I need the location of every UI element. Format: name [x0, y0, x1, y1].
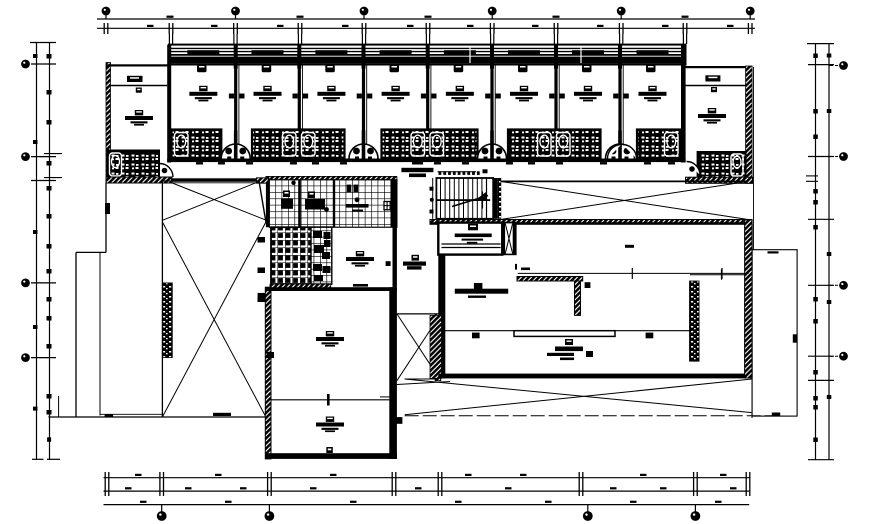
toilet block bottom hatch [270, 284, 331, 289]
right suite bathroom [698, 152, 746, 179]
service block tile floor [269, 180, 397, 227]
right dimension top tick [807, 43, 834, 45]
service room A fixtures [281, 181, 296, 209]
terrace west wall upper [105, 183, 107, 252]
balcony band outer rect [169, 45, 686, 65]
south void east line [751, 378, 753, 418]
top grid bubbles with stems [102, 7, 111, 19]
left suite hatched west wall [106, 63, 111, 184]
right grid bubbles with stems [829, 61, 848, 70]
manager room desk [455, 224, 492, 244]
tall room west hatched wall [265, 287, 271, 459]
staircase lower flight steps [440, 201, 442, 219]
right suite upper desk [705, 75, 720, 92]
left suite bed symbol [125, 110, 153, 126]
room right of toilets east wall [393, 227, 397, 287]
room closet boxes [197, 65, 207, 72]
balcony band stripes [169, 47, 686, 49]
terrace south walls [48, 416, 162, 418]
south void diagonals [405, 379, 752, 413]
west tick line [380, 396, 393, 398]
manager room box [438, 223, 502, 255]
tall room partition [271, 399, 389, 401]
left void column marks [258, 237, 266, 243]
tall room bottom wall [265, 453, 397, 459]
south void dashed bottom [405, 415, 781, 417]
room divider walls [229, 65, 245, 159]
east wing south dash [772, 413, 780, 417]
left grid bubbles with stems [21, 60, 49, 69]
left suite door arc [160, 164, 174, 178]
tall room top tick [353, 284, 368, 287]
hall west hatched lower wall [430, 315, 442, 378]
left void bottom line [162, 416, 266, 418]
hall divider squares [472, 333, 480, 339]
tall room upper desk [316, 331, 344, 347]
stair dashed marks square [483, 169, 488, 173]
stair top dashed row [439, 171, 442, 175]
left void top line [162, 180, 259, 182]
small square cabinet [585, 282, 591, 288]
right suite bed symbol [698, 108, 726, 124]
staircase mid landing line [437, 199, 490, 201]
rooms left wall [167, 45, 171, 163]
staircase upper flight steps [440, 179, 442, 200]
bottom dimension text specks [135, 474, 142, 476]
corridor sink unit [403, 255, 426, 270]
manager room counter lines [442, 243, 501, 245]
toilet room wall box [386, 261, 391, 266]
tall room east wall [389, 287, 397, 459]
hall mid line ticks [631, 268, 633, 279]
terrace south door mark [213, 413, 231, 416]
corridor south wall strip [171, 178, 257, 181]
top dimension line A [97, 18, 755, 20]
hall label dash [625, 245, 634, 248]
left dimension top tick [30, 42, 56, 44]
window grid square [384, 202, 390, 210]
staircase outer box [436, 178, 493, 219]
right suite bottom hatched strip [686, 177, 753, 183]
balcony band joints [469, 46, 471, 64]
top dimension tick pairs [104, 23, 108, 34]
hall west desk [455, 283, 508, 298]
east wing outline [752, 250, 797, 416]
toilet block light grid part [311, 227, 332, 284]
hall north line to wing [690, 274, 747, 276]
terrace inner wall lower [99, 252, 101, 415]
left void west line [161, 181, 163, 417]
rooms bottom wall [167, 159, 685, 163]
service block top hatched strip [266, 176, 397, 179]
staircase arrow [452, 196, 488, 207]
toilet block inner black cells [313, 231, 322, 238]
right suite hatched east wall [746, 66, 753, 183]
reception counter [401, 168, 433, 177]
tall room top wall [265, 287, 397, 291]
right dimension vertical lines [815, 43, 817, 460]
hall curtain strip [690, 281, 700, 361]
bottom dimension tick pairs [105, 472, 109, 496]
hall east hatched wall [745, 220, 753, 378]
hall north wall [430, 220, 752, 225]
staircase landing wall [486, 179, 488, 219]
left void lower cross [162, 222, 266, 417]
bathroom blocks [172, 130, 222, 159]
bathroom door arcs [221, 131, 250, 161]
south corridor east hatched wall [435, 314, 441, 381]
left suite bathroom [108, 151, 160, 179]
left void upper cross [171, 183, 267, 221]
room bed symbols [189, 86, 217, 102]
service block west wall [266, 176, 269, 227]
left suite top wall [106, 64, 171, 66]
left void wall shaft hatched strip [163, 283, 173, 358]
corridor void cross diagonals [501, 181, 749, 219]
wall drop ticks from top dims [169, 34, 172, 44]
south corridor slant line [397, 382, 450, 385]
rooms bottom wall stubs [196, 162, 203, 164]
left dimension vertical lines [36, 42, 38, 460]
east wing east tick [793, 334, 797, 342]
terrace west wall lower [75, 252, 77, 417]
L-shaped partition wall [517, 277, 583, 282]
hall north label dash [521, 268, 530, 271]
south corridor cross [397, 314, 441, 381]
tall room west wall fixtures [258, 293, 266, 299]
left void east slant wall [259, 181, 266, 222]
top dimension line B [97, 27, 755, 29]
elevator shaft [502, 223, 516, 255]
left suite partition [111, 85, 168, 87]
south corridor box [397, 313, 441, 315]
toilet block dense grid [271, 227, 331, 284]
left suite upper desk [127, 76, 143, 93]
bottom right end speck [813, 438, 818, 443]
left suite bottom hatched strip [106, 177, 172, 183]
right dimension cross ticks [808, 64, 834, 66]
balcony band bay shade blocks [187, 50, 219, 55]
toilet room desk [346, 251, 374, 267]
right dimension text specks [813, 54, 818, 59]
east wing west line [751, 224, 753, 250]
site boundary right line [753, 67, 755, 250]
tall room lower desk [316, 417, 344, 433]
terrace step wall [76, 251, 106, 253]
tall room small box [326, 447, 333, 453]
left dimension cross ticks [31, 63, 56, 65]
top dimension text ticks [147, 25, 154, 27]
hall lower divider line [442, 330, 690, 332]
south corridor corner block [393, 417, 402, 424]
hall mid line [518, 272, 749, 274]
service room C fixtures [346, 185, 369, 212]
service block east wall [391, 180, 397, 227]
hall long table [514, 331, 615, 337]
corridor wall marks [412, 161, 423, 165]
service block partitions [298, 180, 301, 227]
left dimension text specks [47, 54, 52, 59]
room 8 door arc [608, 145, 622, 159]
bottom dimension lines [104, 477, 750, 479]
rooms right wall [681, 45, 686, 163]
staircase left dim line [432, 178, 434, 219]
balcony band dark lower bar [169, 54, 686, 63]
east wing north dash [768, 251, 779, 253]
hall west wall [438, 255, 445, 379]
corridor void top line [501, 180, 749, 182]
hall south desk [547, 339, 593, 360]
south void top left line [405, 378, 439, 380]
right suite partition [686, 85, 746, 87]
right suite door arc [687, 162, 701, 176]
hall south wall [438, 374, 752, 379]
staircase right wall [493, 178, 498, 219]
right suite top wall [686, 66, 752, 68]
bottom grid bubbles with stems [157, 505, 167, 521]
balcony band posts [234, 45, 238, 69]
service room B fixtures [305, 192, 329, 212]
